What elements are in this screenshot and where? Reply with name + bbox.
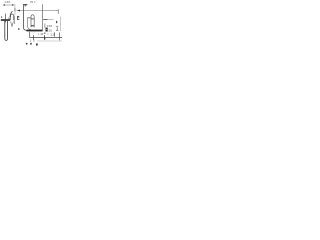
left arrowhead of top dimension bbox=[18, 9, 20, 11]
riser pipe vertical and bend bbox=[23, 5, 42, 30]
tube left wall bbox=[4, 21, 6, 38]
stem above spout bbox=[5, 14, 7, 20]
right tick bbox=[56, 21, 57, 23]
riser pipe arrow dot bbox=[25, 5, 26, 8]
lever curve bbox=[10, 11, 13, 17]
right arrowhead of top dimension bbox=[56, 10, 58, 11]
wall extension line bbox=[41, 4, 43, 31]
tube right wall bbox=[7, 21, 9, 38]
riser pipe cap bbox=[23, 3, 27, 6]
body taper V bbox=[11, 22, 14, 27]
cylinder dome bbox=[31, 15, 34, 17]
svg-text:15: 15 bbox=[30, 38, 37, 42]
body attach mark bbox=[8, 17, 10, 20]
top dimension line bbox=[17, 9, 59, 11]
pipe inner bend bbox=[28, 18, 31, 29]
bottom dimension corner vertical bbox=[29, 32, 31, 38]
cartridge housing bbox=[11, 14, 14, 20]
spout bar left object bbox=[1, 19, 10, 21]
extension line right of dim 136 bbox=[14, 4, 16, 15]
right leader line bbox=[43, 19, 47, 21]
left arrowhead bbox=[3, 4, 5, 6]
cylinder band lower bbox=[31, 25, 35, 26]
dimension line top-left bbox=[3, 4, 14, 6]
small block node bbox=[17, 16, 19, 18]
small mark below flange bbox=[44, 33, 45, 34]
bottom tick 2 bbox=[44, 35, 46, 40]
body right line bbox=[14, 16, 16, 25]
flange stem faint bbox=[44, 24, 46, 28]
small dot node bbox=[18, 28, 19, 30]
connector bar bbox=[27, 16, 31, 19]
cylinder left wall bbox=[30, 17, 32, 27]
bottom tick 4 bbox=[59, 33, 61, 41]
tube rounded bottom bbox=[5, 38, 8, 40]
cylinder band upper bbox=[31, 18, 35, 21]
bottom second faint line bbox=[37, 40, 62, 42]
bend bottom bar bbox=[27, 30, 43, 32]
svg-text:42: 42 bbox=[40, 32, 44, 36]
right plusminus marks bbox=[56, 25, 58, 28]
spout tip tick bbox=[1, 16, 2, 17]
svg-text:136: 136 bbox=[4, 0, 10, 4]
cylinder right wall bbox=[33, 17, 35, 27]
right faint vertical bbox=[60, 17, 62, 32]
right extension tick bbox=[57, 9, 59, 14]
bottom tick 3 above bbox=[54, 32, 56, 36]
wall flange 8-blob bbox=[46, 28, 48, 32]
right arrowhead bbox=[12, 4, 14, 6]
bottom dimension line bbox=[29, 37, 62, 39]
bottom small dark marks bbox=[26, 43, 28, 45]
svg-text:11: 11 bbox=[50, 32, 54, 36]
bottom tick 1 bbox=[33, 35, 35, 40]
